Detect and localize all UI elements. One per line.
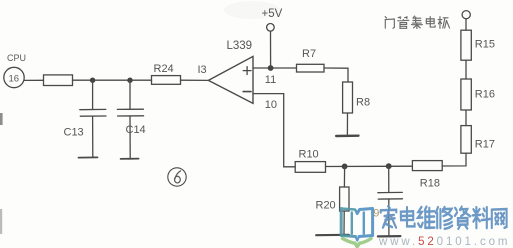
svg-text:www.520101.com: www.520101.com bbox=[378, 236, 510, 248]
capacitor C13 bbox=[64, 80, 107, 157]
char guan (tube) bbox=[398, 17, 409, 28]
svg-text:R10: R10 bbox=[299, 149, 319, 161]
resistor (unlabeled, series input) bbox=[44, 75, 73, 86]
wire CPU to input resistor bbox=[24, 79, 43, 81]
svg-text:C13: C13 bbox=[64, 127, 84, 139]
wire pin 11 (non-inverting input) bbox=[253, 67, 297, 69]
watermark logo: open book bbox=[341, 209, 372, 241]
svg-text:R8: R8 bbox=[356, 97, 370, 109]
svg-text:10: 10 bbox=[265, 99, 277, 111]
wm char wei (maintain) bbox=[418, 207, 435, 228]
resistor R7 bbox=[297, 48, 325, 72]
wire R24 to op-amp output bbox=[181, 79, 209, 81]
junction node (R20 tap) bbox=[342, 164, 348, 170]
ground bar (C13 return) bbox=[79, 156, 98, 158]
wm char zi (resource) bbox=[455, 207, 470, 229]
svg-text:16: 16 bbox=[9, 74, 20, 85]
ground bar (C14 return) bbox=[121, 158, 139, 160]
+5V supply terminal bbox=[262, 8, 283, 68]
svg-text:R20: R20 bbox=[316, 200, 336, 212]
junction node (+5V tap on pin 11) bbox=[268, 65, 274, 71]
wire R10 to R18 bbox=[326, 165, 413, 167]
capacitor C14 bbox=[117, 80, 145, 158]
terminal (gate-tube collector) bbox=[462, 11, 470, 19]
svg-text:R15: R15 bbox=[475, 39, 495, 51]
watermark site name (Chinese calligraphic) bbox=[381, 206, 507, 229]
resistor R16 bbox=[461, 79, 495, 110]
capacitor C19 bbox=[373, 166, 402, 236]
svg-text:R17: R17 bbox=[475, 139, 495, 151]
resistor R17 bbox=[461, 126, 495, 154]
junction node (C14 tap) bbox=[127, 78, 132, 83]
wm char dian (electric) bbox=[401, 207, 415, 226]
wire R8 to ground bbox=[346, 113, 348, 136]
svg-text:R18: R18 bbox=[420, 178, 440, 190]
ground (below C19) bbox=[378, 235, 401, 237]
junction node (C13 tap) bbox=[90, 78, 95, 83]
net label: gate-tube collector (Chinese) bbox=[385, 16, 449, 29]
resistor R18 bbox=[412, 161, 442, 190]
resistor R24 bbox=[152, 63, 181, 84]
watermark bbox=[341, 206, 510, 248]
wm char liao (material) bbox=[473, 207, 490, 228]
svg-text:CPU: CPU bbox=[7, 53, 26, 63]
wire R18 up to R17 bbox=[442, 153, 466, 166]
char ji (collect) bbox=[411, 16, 422, 29]
watermark logo ribbon bbox=[343, 239, 372, 247]
ground (below R20) bbox=[316, 234, 349, 237]
wire pin 10 (inverting input, down to feedback line) bbox=[253, 94, 295, 167]
wire R17 to R16 bbox=[465, 110, 467, 126]
resistor R20 bbox=[316, 166, 350, 234]
char dian (electric) bbox=[426, 17, 435, 28]
svg-text:R7: R7 bbox=[302, 48, 316, 60]
char ji (electrode) bbox=[438, 17, 449, 29]
resistor R8 bbox=[343, 82, 370, 113]
wm char wang (net) bbox=[492, 209, 507, 228]
svg-text:L339: L339 bbox=[227, 40, 253, 52]
wire input resistor to R24 bbox=[73, 79, 152, 81]
ground (below R8) bbox=[336, 134, 358, 137]
svg-text:C14: C14 bbox=[126, 124, 146, 136]
svg-text:R24: R24 bbox=[154, 63, 174, 75]
svg-text:11: 11 bbox=[265, 74, 276, 86]
wire R15 to collector terminal bbox=[465, 19, 467, 30]
svg-text:I3: I3 bbox=[198, 64, 207, 76]
CPU pin 16 terminal bbox=[4, 67, 24, 87]
junction node (C19 tap) bbox=[386, 163, 392, 169]
char men (gate) bbox=[385, 17, 394, 29]
wm char xiu (repair) bbox=[436, 207, 452, 229]
svg-text:9: 9 bbox=[373, 208, 379, 220]
wire R7 to R8 bbox=[324, 68, 348, 82]
svg-text:R16: R16 bbox=[475, 89, 495, 101]
svg-text:+5V: +5V bbox=[262, 8, 283, 20]
wm char jia (home) bbox=[381, 206, 397, 227]
wire R16 to R15 bbox=[465, 60, 467, 79]
resistor R10 bbox=[295, 149, 325, 173]
figure number 6 bbox=[168, 168, 186, 186]
op-amp U1 L339 (comparator, mirrored) bbox=[208, 40, 253, 104]
resistor R15 bbox=[461, 30, 495, 60]
